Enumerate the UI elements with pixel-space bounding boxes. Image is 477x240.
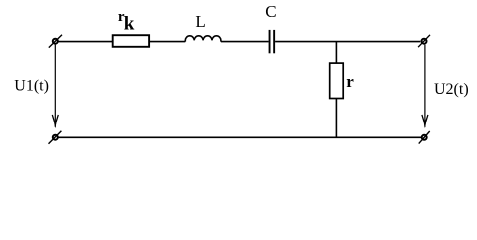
wire (L to C): [221, 41, 269, 43]
wire bottom (T3 to T4): [59, 136, 422, 138]
voltage arrow U2 (right, pointing down): [422, 45, 428, 129]
label r_k: [118, 9, 135, 34]
terminal T3 (bottom-left input): [49, 131, 62, 144]
svg-text:k: k: [124, 13, 135, 34]
wire (C to node A): [275, 41, 336, 43]
terminal T2 (top-right output): [418, 35, 430, 47]
terminal T1 (top-left input): [49, 35, 62, 48]
wire top-left (T1 to r_k): [59, 41, 113, 43]
inductor L: [185, 36, 221, 42]
svg-text:r: r: [346, 72, 354, 91]
svg-text:U1(t): U1(t): [14, 78, 49, 95]
svg-text:C: C: [265, 2, 276, 21]
voltage arrow U1 (left, pointing down): [52, 45, 58, 129]
wire (resistor r to bottom wire): [335, 99, 337, 138]
resistor r (shunt): [330, 63, 344, 98]
svg-text:U2(t): U2(t): [434, 81, 469, 98]
resistor r_k: [113, 35, 149, 47]
terminal T4 (bottom-right output): [419, 131, 430, 144]
svg-text:L: L: [195, 12, 205, 31]
wire (r_k to L): [149, 41, 185, 43]
wire (node A down to resistor r): [335, 42, 337, 64]
wire (node A to T2): [336, 41, 420, 43]
capacitor C: [269, 30, 276, 53]
